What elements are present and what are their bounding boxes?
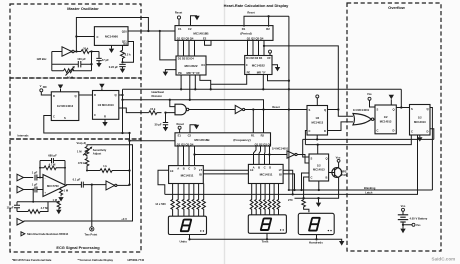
svg-text:1/4 MC14001: 1/4 MC14001 bbox=[353, 108, 370, 112]
svg-text:MC14518B: MC14518B bbox=[193, 31, 209, 35]
svg-text:15 k: 15 k bbox=[150, 107, 156, 111]
feedback loop verticals bbox=[40, 161, 65, 185]
resistor array (tens) bbox=[250, 184, 280, 215]
reset wire top right (R1 R2 of Period) bbox=[244, 11, 289, 27]
svg-text:MC14518B: MC14518B bbox=[194, 138, 210, 142]
svg-text:4.05 V Battery: 4.05 V Battery bbox=[410, 216, 428, 220]
svg-text:Q: Q bbox=[427, 107, 429, 111]
bus A (long) bbox=[123, 88, 402, 90]
svg-text:E1: E1 bbox=[178, 134, 182, 138]
chip U7 MC14511 #2 bbox=[248, 164, 283, 183]
svg-text:D: D bbox=[194, 167, 196, 171]
resistor 1 M to ground below op-amp bbox=[58, 187, 69, 202]
FF3 terminal top bbox=[316, 95, 319, 106]
svg-text:LT: LT bbox=[199, 168, 202, 172]
svg-text:HP5082-7740: HP5082-7740 bbox=[128, 258, 145, 262]
svg-text:D1 D2 D3 D4: D1 D2 D3 D4 bbox=[178, 57, 194, 61]
svg-text:Q: Q bbox=[326, 157, 328, 161]
svg-text:1 k: 1 k bbox=[103, 164, 107, 168]
svg-text:10 M: 10 M bbox=[67, 76, 74, 80]
svg-text:B: B bbox=[183, 167, 185, 171]
svg-text:Division: Division bbox=[152, 94, 163, 98]
NAND output to inverter I2 bbox=[189, 109, 235, 111]
svg-text:0.22 µF: 0.22 µF bbox=[109, 65, 119, 69]
svg-text:O4: O4 bbox=[201, 63, 205, 67]
FF4 top pin bbox=[317, 145, 319, 154]
latch line bbox=[165, 135, 418, 195]
VDD terminal overflow bbox=[367, 92, 375, 107]
electrode 3 (reference) bbox=[17, 218, 24, 225]
ground above U5 bbox=[190, 125, 199, 133]
svg-text:20 k: 20 k bbox=[83, 46, 89, 50]
common cathode line with ground bbox=[190, 233, 342, 241]
svg-text:*MC14572 Hex Functional Gate: *MC14572 Hex Functional Gate bbox=[12, 258, 52, 262]
capacitor 30 pF with ground bbox=[154, 113, 168, 132]
svg-text:D: D bbox=[269, 165, 271, 169]
svg-text:(Frequency): (Frequency) bbox=[233, 138, 250, 142]
svg-text:1 µF: 1 µF bbox=[32, 170, 38, 174]
terminal Reset (top of U2) bbox=[175, 11, 182, 26]
svg-text:1/4 MC14001: 1/4 MC14001 bbox=[272, 147, 289, 151]
C input rail of U1 bbox=[76, 18, 148, 52]
svg-text:Intervals: Intervals bbox=[18, 134, 30, 138]
chip U2 MC14518B (Period) bbox=[175, 26, 273, 41]
resistor array 14 x 560 (units) bbox=[155, 184, 205, 217]
wire FF1.C from clock line bbox=[44, 116, 130, 134]
svg-text:LT: LT bbox=[279, 168, 282, 172]
svg-text:Overflow: Overflow bbox=[388, 5, 406, 10]
ground arrow above FF1 bbox=[58, 85, 63, 92]
svg-text:1/2: 1/2 bbox=[384, 115, 388, 119]
svg-text:30 pF: 30 pF bbox=[154, 123, 161, 127]
ground below FF2 bbox=[102, 119, 107, 126]
svg-text:Adjust: Adjust bbox=[93, 151, 101, 155]
svg-text:MC14013: MC14013 bbox=[311, 120, 323, 124]
ground right of U4 bbox=[272, 65, 280, 72]
svg-text:DD: DD bbox=[43, 85, 47, 89]
svg-text:VDD(+3): VDD(+3) bbox=[77, 141, 87, 145]
flip-flop FF2 1/2 MC14013 bbox=[93, 91, 119, 120]
svg-text:Q: Q bbox=[324, 108, 326, 112]
svg-text:R2: R2 bbox=[261, 134, 265, 138]
svg-text:ECG Signal Processing: ECG Signal Processing bbox=[56, 245, 100, 250]
svg-text:D: D bbox=[427, 130, 429, 134]
FF4 left bottom to blanking bbox=[302, 173, 310, 190]
svg-text:1 M: 1 M bbox=[77, 150, 82, 154]
svg-text:C: C bbox=[377, 129, 379, 133]
svg-text:Q1 Q2 Q3 Q4: Q1 Q2 Q3 Q4 bbox=[177, 143, 194, 147]
capacitor 47 pF with ground bbox=[96, 52, 109, 68]
svg-text:A: A bbox=[177, 167, 179, 171]
bus H1 tail down to FF6 bbox=[400, 89, 402, 107]
svg-text:**Common Cathode Display: **Common Cathode Display bbox=[78, 258, 114, 262]
resistor 1 k rail bbox=[86, 164, 131, 172]
svg-text:BI: BI bbox=[279, 172, 282, 176]
dashed box middle-left compartment bbox=[10, 78, 141, 139]
svg-text:V: V bbox=[40, 84, 42, 88]
svg-text:Heart-Rate Calculation and Dis: Heart-Rate Calculation and Display bbox=[224, 3, 289, 8]
svg-text:D: D bbox=[94, 93, 96, 97]
svg-text:Two Point: Two Point bbox=[85, 232, 98, 236]
wire Q11 loop bbox=[123, 42, 134, 63]
svg-text:C2: C2 bbox=[188, 134, 192, 138]
svg-text:D1 D2 D3 D4: D1 D2 D3 D4 bbox=[246, 56, 262, 60]
bias network lower left bbox=[7, 189, 62, 215]
capacitor 100 pF bbox=[77, 57, 86, 67]
svg-text:Q10: Q10 bbox=[122, 29, 128, 33]
svg-text:Q1 Q2 Q3 Q4: Q1 Q2 Q3 Q4 bbox=[247, 37, 264, 41]
oscillator loop wires bbox=[52, 52, 99, 71]
svg-text:Master Oscillator: Master Oscillator bbox=[67, 6, 99, 11]
FF6 right pin to blanking vertical bbox=[430, 108, 432, 191]
test point line to Two Point terminal bbox=[91, 185, 93, 227]
svg-text:C: C bbox=[246, 63, 248, 67]
svg-text:270: 270 bbox=[288, 198, 293, 202]
svg-text:MC14060: MC14060 bbox=[105, 34, 118, 38]
svg-text:Heartbeat: Heartbeat bbox=[152, 90, 165, 94]
svg-text:100 pF: 100 pF bbox=[77, 57, 86, 61]
chip U5 MC14518B (Frequency) bbox=[175, 133, 272, 147]
svg-text:Skin Electrode Beckman 650044: Skin Electrode Beckman 650044 bbox=[27, 232, 69, 236]
svg-text:C: C bbox=[411, 130, 413, 134]
svg-text:D: D bbox=[324, 129, 326, 133]
svg-text:LE: LE bbox=[250, 168, 254, 172]
svg-text:MR "0" CF: MR "0" CF bbox=[187, 71, 201, 75]
fold artifact line bbox=[224, 0, 226, 264]
skin electrode note bbox=[21, 232, 69, 236]
wire U3.O4 to U4.C bbox=[206, 64, 245, 66]
svg-text:C: C bbox=[311, 176, 313, 180]
ground in hundreds area bbox=[316, 198, 321, 207]
svg-text:Reset: Reset bbox=[175, 11, 182, 15]
inverter I3 1/4 MC14001 bbox=[272, 147, 309, 163]
svg-text:D: D bbox=[53, 94, 55, 98]
flip-flop FF6 1/2 MC14013 (overflow) bbox=[410, 105, 431, 136]
svg-text:PE: PE bbox=[247, 70, 251, 74]
svg-text:680 pF: 680 pF bbox=[48, 154, 57, 158]
svg-text:MC14013: MC14013 bbox=[313, 168, 325, 172]
blanking line bbox=[288, 186, 433, 190]
svg-text:MC14522: MC14522 bbox=[184, 64, 197, 68]
svg-text:+3 V: +3 V bbox=[121, 217, 127, 221]
horizontal line L2 bbox=[305, 135, 411, 145]
chip U4 MC14522 #2 bbox=[245, 56, 272, 75]
svg-text:C: C bbox=[53, 115, 55, 119]
svg-text:R2: R2 bbox=[266, 27, 270, 31]
svg-text:D: D bbox=[393, 129, 395, 133]
svg-text:Reset: Reset bbox=[177, 122, 184, 126]
svg-text:PE: PE bbox=[178, 71, 182, 75]
svg-text:MC14522: MC14522 bbox=[252, 64, 265, 68]
svg-text:(Period): (Period) bbox=[240, 31, 251, 35]
NAND gate G1 bbox=[166, 100, 189, 115]
svg-text:Q1 Q2 Q3 Q4: Q1 Q2 Q3 Q4 bbox=[177, 37, 194, 41]
flip-flop FF1 1/2 MC14013 bbox=[51, 92, 79, 121]
wire E2 stub bbox=[205, 40, 212, 45]
chip U3 MC14522 #1 bbox=[176, 56, 206, 75]
ground left of U3 bbox=[163, 70, 176, 76]
svg-text:1/2: 1/2 bbox=[315, 116, 319, 120]
svg-text:LE: LE bbox=[170, 169, 174, 173]
svg-text:S: S bbox=[377, 108, 379, 112]
svg-text:C: C bbox=[309, 129, 311, 133]
chip U6 MC14511 #1 bbox=[169, 166, 204, 184]
svg-text:8.2 k: 8.2 k bbox=[125, 52, 131, 56]
wire FF1.Q to FF2 bbox=[79, 94, 93, 96]
capacitor 0.22 uF with ground bbox=[109, 64, 126, 73]
NOR gate G2 1/4 MC14001 bbox=[353, 108, 375, 125]
display DS1 Units bbox=[168, 216, 206, 243]
display DS3 Hundreds bbox=[298, 213, 334, 244]
dashed box Master Oscillator bbox=[10, 4, 141, 78]
svg-text:B: B bbox=[258, 165, 260, 169]
FF4 right bottom to hundreds resistor bbox=[304, 177, 309, 200]
wire FF5.Q to FF6 bbox=[396, 107, 409, 109]
svg-text:C: C bbox=[264, 165, 266, 169]
svg-text:6516: 6516 bbox=[341, 173, 347, 177]
reset rail vertical bbox=[288, 16, 290, 190]
svg-text:Q: Q bbox=[75, 94, 77, 98]
svg-text:B: B bbox=[326, 176, 328, 180]
display DS2 Tens bbox=[248, 215, 286, 244]
+3V reference rail bbox=[24, 145, 133, 221]
flip-flop FF4 1/2 MC14013 bbox=[309, 154, 329, 181]
svg-text:S: S bbox=[64, 116, 66, 120]
potentiometer 10 M bbox=[64, 66, 75, 80]
LT/BI chain U6-U7 bbox=[203, 170, 248, 174]
dashed box Overflow bbox=[347, 3, 441, 251]
svg-text:MC14511: MC14511 bbox=[260, 173, 273, 177]
svg-text:47 pF: 47 pF bbox=[102, 58, 109, 62]
FF3 left bottom to line L2 bbox=[305, 131, 307, 145]
terminal Reset above U5 bbox=[177, 122, 184, 133]
svg-text:1/2: 1/2 bbox=[418, 116, 422, 120]
svg-text:R1: R1 bbox=[242, 27, 246, 31]
electrode 2 bbox=[17, 186, 33, 193]
svg-text:S: S bbox=[311, 157, 313, 161]
svg-text:CF: CF bbox=[267, 56, 271, 60]
ground arrow above FF2 bbox=[99, 84, 104, 91]
flip-flop FF3 1/2 MC14013 bbox=[307, 106, 328, 136]
svg-text:1 µF: 1 µF bbox=[32, 183, 38, 187]
wires U5 left Q to U6 ABCD bbox=[178, 146, 195, 166]
wires U2 right half down to U4 bbox=[248, 40, 265, 55]
flip-flop FF5 1/2 MC14013 (overflow) bbox=[375, 105, 396, 134]
bus B bbox=[123, 100, 264, 110]
svg-text:C2: C2 bbox=[188, 27, 192, 31]
ECG clock riser and U5.C1 feed bbox=[130, 133, 176, 185]
svg-text:Reset: Reset bbox=[247, 11, 254, 15]
wires below U3 to bus A / bus B bbox=[181, 75, 195, 100]
svg-text:1/2: 1/2 bbox=[317, 163, 321, 167]
coupling capacitor 0.1 uF bbox=[66, 178, 106, 188]
transistor Q1 MPS6516 bbox=[329, 162, 347, 182]
svg-text:Q: Q bbox=[115, 93, 117, 97]
verticals to R1 R2 of U5 bbox=[253, 110, 263, 133]
svg-text:Units: Units bbox=[179, 240, 187, 244]
FF3 bottom pin to line L1 bbox=[316, 135, 318, 139]
svg-text:SaidC.com: SaidC.com bbox=[432, 256, 456, 261]
svg-text:-: - bbox=[45, 178, 46, 181]
svg-text:MR "0": MR "0" bbox=[257, 70, 267, 74]
svg-text:Hundreds: Hundreds bbox=[309, 241, 323, 245]
FF3 right connections bbox=[328, 109, 339, 111]
battery 4.05V bbox=[398, 204, 428, 233]
svg-text:1/2 MC14013: 1/2 MC14013 bbox=[57, 104, 74, 108]
svg-text:MC14013: MC14013 bbox=[414, 120, 426, 124]
svg-text:BI: BI bbox=[199, 173, 202, 177]
FF4 bottom pin bbox=[318, 181, 320, 190]
svg-text:Reset: Reset bbox=[272, 105, 279, 109]
svg-text:C: C bbox=[94, 113, 96, 117]
svg-text:1 M: 1 M bbox=[64, 189, 69, 193]
sensitivity pot bbox=[77, 141, 107, 156]
ground below FF6 bbox=[417, 135, 422, 142]
wire FF2 to 15k line bbox=[119, 108, 149, 113]
resistor 270 for hundreds bbox=[288, 198, 309, 212]
dashed box ECG Signal Processing bbox=[10, 139, 141, 252]
feedback capacitor 680 pF bbox=[40, 154, 65, 163]
op-amp MC1776C bbox=[43, 175, 66, 197]
svg-text:C: C bbox=[97, 35, 99, 39]
svg-text:0.1 µF: 0.1 µF bbox=[73, 178, 81, 182]
long wire from Q4 right to FF3 column bbox=[264, 46, 353, 116]
chip U1 MC14060 bbox=[94, 27, 128, 47]
svg-text:4.7 M: 4.7 M bbox=[41, 206, 48, 210]
horizontal wire y154.5 to inverter I3 bbox=[195, 154, 288, 156]
svg-text:MC14013: MC14013 bbox=[380, 120, 392, 124]
svg-text:470 k: 470 k bbox=[78, 161, 85, 165]
feedback resistor 4.7 M bbox=[40, 163, 65, 170]
VDD terminal above transistor bbox=[336, 156, 341, 163]
svg-text:1/2 MC14013: 1/2 MC14013 bbox=[98, 103, 115, 107]
electrode 1 bbox=[17, 174, 33, 181]
svg-text:C: C bbox=[188, 167, 190, 171]
buffer I4 (1/6 MC14572) bbox=[106, 181, 131, 190]
resistor 15 k bbox=[149, 107, 162, 115]
svg-text:MPS: MPS bbox=[341, 169, 347, 173]
ground above U2 bbox=[191, 16, 200, 26]
svg-text:S: S bbox=[309, 108, 311, 112]
svg-text:14 x 560: 14 x 560 bbox=[155, 202, 166, 206]
svg-text:MC1776C: MC1776C bbox=[47, 184, 59, 188]
svg-text:1 M: 1 M bbox=[53, 198, 58, 202]
horizontal line L1 bbox=[303, 129, 434, 157]
svg-text:Q4: Q4 bbox=[123, 42, 127, 46]
svg-text:S: S bbox=[411, 107, 413, 111]
resistor 470 k bbox=[78, 156, 89, 170]
terminal Q above U4 bbox=[269, 50, 272, 55]
svg-text:Blanking: Blanking bbox=[364, 186, 376, 190]
svg-text:C1: C1 bbox=[178, 27, 182, 31]
middle-left compartment: VDD terminal bbox=[40, 84, 52, 95]
svg-text:128 kHz: 128 kHz bbox=[36, 57, 47, 61]
inverter I1 master oscillator bbox=[62, 47, 74, 56]
svg-text:Sensitivity: Sensitivity bbox=[93, 148, 107, 152]
wire FF2.Q to bus column bbox=[119, 89, 123, 133]
wire Q10 to U2 C1 bbox=[128, 30, 175, 32]
I2 output to reset rail and FF3 bbox=[245, 109, 307, 111]
wires U2 to U3 (Q1-Q4 to D1-D4) bbox=[178, 40, 195, 56]
capacitor 1 uF (top input) bbox=[32, 170, 43, 180]
two point test terminal bbox=[85, 227, 98, 237]
wires U5 right Q to U7 ABCD bbox=[254, 146, 270, 164]
svg-text:E2: E2 bbox=[203, 37, 207, 41]
resistor 8.2 k below U1 bbox=[121, 45, 132, 62]
emitter to hundreds feed line bbox=[295, 183, 339, 199]
inverter I2 bbox=[235, 105, 245, 113]
svg-text:R: R bbox=[104, 115, 106, 119]
resistor 20k bbox=[81, 46, 89, 53]
capacitor 1 uF (bottom input) bbox=[32, 183, 43, 193]
svg-text:Q: Q bbox=[393, 108, 395, 112]
ground above FF5 bbox=[389, 95, 394, 105]
svg-text:10 µF: 10 µF bbox=[7, 205, 14, 209]
U6 LE stub to latch line bbox=[158, 170, 169, 194]
ground below U1 bbox=[109, 45, 114, 53]
svg-text:MC14511: MC14511 bbox=[181, 173, 194, 177]
svg-text:R1: R1 bbox=[251, 134, 255, 138]
FF3 left pin from reset line bbox=[306, 108, 308, 110]
